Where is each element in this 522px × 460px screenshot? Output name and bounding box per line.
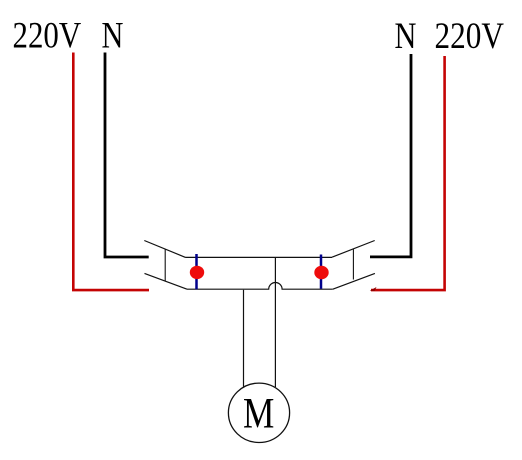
switch S bottom rail with crossover hump <box>187 283 333 290</box>
wire N1 left neutral feed (black) <box>105 53 149 258</box>
switch blade left lower <box>145 273 188 289</box>
switch S top rail <box>186 256 333 258</box>
switch blade right lower <box>333 273 375 289</box>
wire L1 left 220V phase feed (red) <box>73 53 149 291</box>
motor M circle <box>228 383 289 442</box>
arrowhead on right phase wire end <box>370 287 377 291</box>
contact pole left (blue) <box>195 254 198 289</box>
contact pole right (blue) <box>320 255 323 289</box>
svg-text:N: N <box>395 16 417 56</box>
switch tie bar right <box>352 249 354 279</box>
svg-text:220V: 220V <box>435 16 505 57</box>
wire to motor from top rail (crosses under hump) <box>274 258 276 387</box>
switch tie bar left <box>164 249 166 281</box>
wire L2 right 220V phase feed (red) <box>371 56 445 290</box>
switch blade left upper <box>144 241 185 258</box>
switch blade right upper <box>332 241 375 258</box>
wire N2 right neutral feed (black) <box>370 54 411 257</box>
contact dot left (red) <box>190 266 204 279</box>
wire to motor from bottom rail <box>243 290 245 387</box>
svg-text:M: M <box>243 389 274 437</box>
svg-text:220V: 220V <box>13 16 82 56</box>
contact dot right (red) <box>314 266 328 279</box>
svg-text:N: N <box>102 16 124 56</box>
